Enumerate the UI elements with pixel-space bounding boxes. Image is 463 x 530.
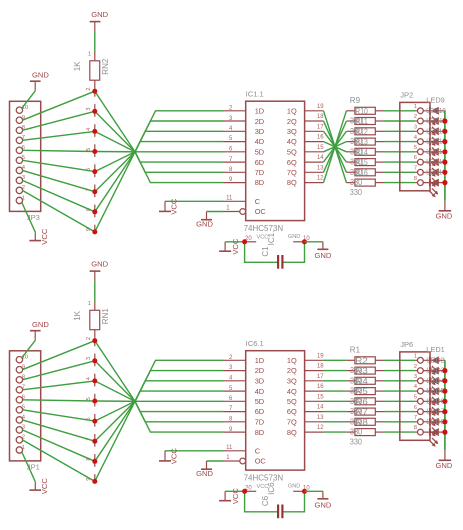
resistor array name R9 xyxy=(350,96,361,105)
svg-text:12: 12 xyxy=(317,425,324,431)
svg-text:13: 13 xyxy=(317,415,324,421)
LED LED4 xyxy=(423,387,445,406)
svg-text:IC1.1: IC1.1 xyxy=(246,90,264,99)
svg-text:LED1: LED1 xyxy=(426,345,445,354)
wire RN2 pin 4 to IC1 pin 7 (net crossover) xyxy=(95,131,224,162)
pin 4 of RN2 xyxy=(86,124,95,137)
ground GND (output enable) xyxy=(196,212,213,229)
label value 330 xyxy=(350,417,363,426)
svg-text:VCC: VCC xyxy=(257,484,269,490)
label name R3 xyxy=(355,367,368,376)
capacitor C6 xyxy=(245,491,305,518)
LED LED8 xyxy=(423,428,445,447)
svg-text:6D: 6D xyxy=(255,158,264,167)
pin 4 of RN1 xyxy=(86,374,95,387)
svg-text:LED9: LED9 xyxy=(426,96,445,105)
svg-text:2: 2 xyxy=(414,114,417,120)
label name LED16 xyxy=(426,167,446,176)
label name LED3 xyxy=(426,366,445,375)
resistor R15 330 xyxy=(346,169,383,176)
wire LED cathode bus to GND xyxy=(444,360,446,450)
pin 8 of RN2 xyxy=(86,205,95,218)
svg-text:VCC: VCC xyxy=(40,228,49,245)
pin 7 of RN1 xyxy=(86,434,95,447)
label name LED1 xyxy=(426,345,445,354)
svg-text:330: 330 xyxy=(350,366,363,375)
power pin 20 VCC of IC1 xyxy=(245,234,269,241)
label name R13 xyxy=(355,138,368,147)
svg-text:5: 5 xyxy=(86,397,92,400)
label value 330 xyxy=(350,428,363,437)
junction node RN2 pin 2 xyxy=(92,89,97,94)
wire JP3 pin 10 to GND xyxy=(22,91,36,109)
supply VCC (latch enable) xyxy=(159,448,179,465)
LED LED9 xyxy=(423,107,445,126)
resistor R16 330 xyxy=(346,179,383,186)
wire IC1 pin 15 to resistor R12 (crossover) xyxy=(324,142,347,152)
svg-text:4Q: 4Q xyxy=(287,137,297,146)
wire RN2 pin 7 to IC1 pin 4 (net crossover) xyxy=(95,131,224,191)
wire RN2 pin 3 to IC1 pin 8 (net crossover) xyxy=(95,111,224,172)
svg-text:1Q: 1Q xyxy=(287,107,297,116)
svg-text:IC1.: IC1. xyxy=(267,231,276,246)
svg-text:5: 5 xyxy=(414,395,417,401)
pin 19 (1Q) of IC6 xyxy=(305,353,325,360)
pin 8 (7D) of IC1 xyxy=(224,167,246,173)
wire resistor R7 to JP6 pin 7 xyxy=(384,421,416,423)
svg-text:1K: 1K xyxy=(73,61,82,71)
svg-text:19: 19 xyxy=(317,353,324,359)
junction LED bus row 7 xyxy=(442,419,447,424)
wire resistor R13 to JP2 pin 5 xyxy=(384,151,416,153)
LED LED10 xyxy=(423,117,445,136)
ground GND (top of JP1) xyxy=(30,320,49,341)
svg-text:3: 3 xyxy=(86,108,92,111)
svg-text:VCC: VCC xyxy=(231,238,240,255)
LED LED12 xyxy=(423,138,445,157)
pin 12 (8Q) of IC6 xyxy=(305,425,325,432)
svg-text:LED6: LED6 xyxy=(426,396,445,405)
pin 6 (5D) of IC6 xyxy=(224,396,246,402)
svg-text:VCC: VCC xyxy=(40,478,49,495)
label name R2 xyxy=(355,356,368,365)
svg-text:2: 2 xyxy=(86,337,92,340)
wire resistor R14 to JP2 pin 6 xyxy=(384,161,416,163)
wire pin 1 to GND xyxy=(207,460,224,462)
svg-text:7: 7 xyxy=(414,415,417,421)
svg-text:4: 4 xyxy=(414,384,417,390)
label value 330 xyxy=(350,178,363,187)
junction node RN1 pin 5 xyxy=(92,399,97,404)
LED LED14 xyxy=(423,158,445,177)
pin 11 (C) of IC6 xyxy=(224,445,246,451)
svg-text:2D: 2D xyxy=(255,366,264,375)
svg-text:GND: GND xyxy=(91,10,108,19)
label name R16 xyxy=(355,168,368,177)
pin 17 (3Q) of IC1 xyxy=(305,124,325,131)
svg-text:IC6.: IC6. xyxy=(267,480,276,495)
label value 330 (last) xyxy=(350,437,363,446)
label name LED13 xyxy=(426,137,446,146)
label name LED15 xyxy=(426,157,446,166)
svg-text:R10: R10 xyxy=(355,107,368,116)
resistor R12 330 xyxy=(346,138,383,145)
wire IC6 pin 13 to resistor R7 xyxy=(324,421,347,423)
svg-text:GND: GND xyxy=(32,320,49,329)
label name LED11 xyxy=(426,116,446,125)
svg-text:18: 18 xyxy=(317,114,324,120)
svg-text:1K: 1K xyxy=(73,310,82,320)
pin 5 of RN2 xyxy=(86,144,95,157)
svg-text:2: 2 xyxy=(86,87,92,90)
svg-text:16: 16 xyxy=(317,384,324,390)
svg-text:VCC: VCC xyxy=(170,198,179,215)
ground GND (top of JP3) xyxy=(30,70,49,91)
svg-text:14: 14 xyxy=(317,405,324,411)
wire resistor R6 to JP6 pin 6 xyxy=(384,411,416,413)
LED LED6 xyxy=(423,408,445,427)
svg-text:11: 11 xyxy=(226,445,233,451)
svg-text:8Q: 8Q xyxy=(287,428,297,437)
svg-text:3: 3 xyxy=(414,374,417,380)
resistor network RN2 value 1K xyxy=(73,51,110,91)
junction node VCC (pin 20) xyxy=(242,239,247,244)
LED LED15 xyxy=(423,168,445,187)
wire IC1 pin 12 to resistor R9 (crossover) xyxy=(324,111,347,183)
capacitor C1 xyxy=(245,242,305,269)
resistor R6 330 xyxy=(346,408,383,415)
junction node VCC (pin 20) xyxy=(242,489,247,494)
wire JP1 pin 8 to RN1 pin 3 xyxy=(22,361,94,380)
svg-text:LED10: LED10 xyxy=(426,106,446,115)
junction LED bus row 2 xyxy=(442,118,447,123)
pin 5 (4D) of IC1 xyxy=(224,136,246,142)
label value 330 (last) xyxy=(350,188,363,197)
wire RN2 pin 2 to IC1 pin 9 (net crossover) xyxy=(95,91,224,182)
junction LED bus row 2 xyxy=(442,368,447,373)
label name LED6 xyxy=(426,396,445,405)
junction node GND (pin 10) xyxy=(302,489,307,494)
pin 9 (8D) of IC1 xyxy=(224,177,246,183)
svg-text:12: 12 xyxy=(317,176,324,182)
svg-text:8: 8 xyxy=(414,176,417,182)
wire pin 11 to VCC xyxy=(165,200,224,202)
wire resistor R4 to JP6 pin 4 xyxy=(384,390,416,392)
wire IC6 pin 19 to resistor R1 xyxy=(324,359,347,361)
label value 330 xyxy=(350,376,363,385)
wire JP3 pin 1 to VCC xyxy=(22,202,36,232)
wire JP1 pin 5 to RN1 pin 6 xyxy=(22,410,94,421)
wire JP3 pin 2 to RN2 pin 9 xyxy=(22,190,94,232)
wire resistor R8 to JP6 pin 8 xyxy=(384,431,416,433)
svg-text:RN1: RN1 xyxy=(101,308,110,325)
svg-text:1: 1 xyxy=(88,51,91,57)
wire RN2 pin 9 to IC1 pin 2 (net crossover) xyxy=(95,111,224,232)
svg-text:2Q: 2Q xyxy=(287,366,297,375)
svg-text:1: 1 xyxy=(22,195,25,201)
svg-text:8D: 8D xyxy=(255,428,264,437)
wire JP3 pin 8 to RN2 pin 3 xyxy=(22,111,94,130)
power pin 10 GND of IC6 xyxy=(288,484,310,492)
junction LED bus row 5 xyxy=(442,149,447,154)
label name R4 xyxy=(355,377,368,386)
junction node RN1 pin 2 xyxy=(92,338,97,343)
ground GND (top of RN1) xyxy=(90,260,109,281)
svg-text:17: 17 xyxy=(317,124,324,130)
ground GND (output enable) xyxy=(196,461,213,478)
svg-text:4: 4 xyxy=(414,135,417,141)
svg-text:330: 330 xyxy=(350,417,363,426)
wire IC1 pin 17 to resistor R14 (crossover) xyxy=(324,131,347,162)
junction LED bus row 4 xyxy=(442,389,447,394)
label value 330 xyxy=(350,397,363,406)
label value 330 xyxy=(350,168,363,177)
svg-text:GND: GND xyxy=(288,484,300,490)
svg-text:1: 1 xyxy=(226,455,230,461)
svg-text:5Q: 5Q xyxy=(287,148,297,157)
svg-text:16: 16 xyxy=(317,135,324,141)
wire GND pin to ground xyxy=(305,241,323,243)
svg-text:C: C xyxy=(255,446,261,455)
wire IC6 pin 15 to resistor R5 xyxy=(324,400,347,402)
svg-text:74HC573N: 74HC573N xyxy=(244,224,284,233)
junction LED bus row 7 xyxy=(442,170,447,175)
svg-text:8: 8 xyxy=(414,425,417,431)
svg-text:7D: 7D xyxy=(255,418,264,427)
pin 6 (5D) of IC1 xyxy=(224,147,246,153)
label name LED4 xyxy=(426,376,445,385)
wire RN2 pin 8 to IC1 pin 3 (net crossover) xyxy=(95,121,224,212)
svg-text:3: 3 xyxy=(414,125,417,131)
pin 13 (7Q) of IC6 xyxy=(305,415,325,422)
LED LED16 xyxy=(423,179,445,198)
svg-text:GND: GND xyxy=(314,500,331,509)
resistor R4 330 xyxy=(346,388,383,395)
svg-text:VCC: VCC xyxy=(257,234,269,240)
resistor R3 330 xyxy=(346,377,383,384)
junction LED bus row 8 xyxy=(442,430,447,435)
svg-text:4Q: 4Q xyxy=(287,387,297,396)
supply VCC (IC power) xyxy=(219,488,240,505)
svg-text:LED8: LED8 xyxy=(426,417,445,426)
resistor R10 330 xyxy=(346,118,383,125)
svg-text:GND: GND xyxy=(314,251,331,260)
pin 7 (6D) of IC6 xyxy=(224,406,246,412)
pin 7 (6D) of IC1 xyxy=(224,157,246,163)
svg-text:OC: OC xyxy=(255,207,267,216)
svg-text:7Q: 7Q xyxy=(287,418,297,427)
pin 2 of RN2 xyxy=(86,87,95,96)
wire pin 1 to GND xyxy=(207,211,224,213)
svg-text:14: 14 xyxy=(317,155,324,161)
wire RN1 pin 2 to IC6 pin 9 (net crossover) xyxy=(95,341,224,432)
pin 14 (6Q) of IC1 xyxy=(305,155,325,162)
ground GND (top of RN2) xyxy=(90,10,109,31)
svg-text:LED7: LED7 xyxy=(426,407,445,416)
wire JP3 pin 4 to RN2 pin 7 xyxy=(22,170,94,191)
supply VCC (IC power) xyxy=(219,238,240,255)
pin 17 (3Q) of IC6 xyxy=(305,374,325,381)
wire resistor R2 to JP6 pin 2 xyxy=(384,370,416,372)
svg-text:1: 1 xyxy=(88,301,91,307)
svg-text:C: C xyxy=(255,197,261,206)
pin 1 (OC) of IC6, inverted xyxy=(224,455,246,464)
resistor R13 330 xyxy=(346,148,383,155)
svg-text:R1: R1 xyxy=(350,346,361,355)
junction node RN1 pin 3 xyxy=(92,358,97,363)
wire IC1 pin 13 to resistor R10 (crossover) xyxy=(324,121,347,172)
resistor network RN1 value 1K xyxy=(73,301,110,341)
label name R12 xyxy=(355,127,368,136)
wire JP3 pin 9 to RN2 pin 2 xyxy=(22,91,94,120)
svg-text:4D: 4D xyxy=(255,137,264,146)
pin 7 of RN2 xyxy=(86,185,95,198)
pin 12 (8Q) of IC1 xyxy=(305,176,325,183)
connector JP1 xyxy=(10,351,41,472)
junction node RN2 pin 7 xyxy=(92,189,97,194)
svg-text:3: 3 xyxy=(86,357,92,360)
svg-text:1: 1 xyxy=(226,205,230,211)
pin 4 (3D) of IC6 xyxy=(224,376,246,382)
wire resistor R11 to JP2 pin 3 xyxy=(384,130,416,132)
svg-text:330: 330 xyxy=(350,168,363,177)
wire resistor R1 to JP6 pin 1 xyxy=(384,359,416,361)
pin 9 of RN1 xyxy=(86,474,95,483)
svg-text:330: 330 xyxy=(350,137,363,146)
junction node GND (pin 10) xyxy=(302,239,307,244)
power pin 20 VCC of IC6 xyxy=(245,484,269,491)
svg-text:LED3: LED3 xyxy=(426,366,445,375)
junction LED bus row 8 xyxy=(442,180,447,185)
wire JP1 pin 1 to VCC xyxy=(22,452,36,482)
junction node RN2 pin 6 xyxy=(92,169,97,174)
label name R11 xyxy=(355,117,368,126)
LED LED11 xyxy=(423,127,445,146)
wire JP3 pin 6 to RN2 pin 5 xyxy=(22,150,94,151)
svg-text:JP6: JP6 xyxy=(400,340,413,349)
svg-text:6Q: 6Q xyxy=(287,407,297,416)
wire resistor R5 to JP6 pin 5 xyxy=(384,400,416,402)
pin 18 (2Q) of IC6 xyxy=(305,364,325,371)
LED LED7 xyxy=(423,418,445,437)
wire RN1 pin 5 to IC6 pin 6 (net crossover) xyxy=(95,400,224,402)
svg-text:R2: R2 xyxy=(355,356,368,365)
LED LED13 xyxy=(423,148,445,167)
pin 4 (3D) of IC1 xyxy=(224,126,246,132)
wire LED cathode bus to GND xyxy=(444,111,446,201)
resistor R2 330 xyxy=(346,367,383,374)
pin 2 (1D) of IC1 xyxy=(224,106,246,112)
pin 14 (6Q) of IC6 xyxy=(305,405,325,412)
junction LED bus row 5 xyxy=(442,399,447,404)
latch IC IC1.1 74HC573N xyxy=(244,90,305,246)
label name LED8 xyxy=(426,417,445,426)
ground GND (LED bus) xyxy=(435,201,452,221)
svg-text:5: 5 xyxy=(86,148,92,151)
connector JP3 xyxy=(10,101,41,222)
pin 9 (8D) of IC6 xyxy=(224,427,246,433)
pin 9 of RN2 xyxy=(86,225,95,234)
label name R5 xyxy=(355,387,368,396)
wire IC6 pin 14 to resistor R6 xyxy=(324,411,347,413)
pin 2 of RN1 xyxy=(86,337,95,346)
label value 330 xyxy=(350,407,363,416)
pin 3 of RN1 xyxy=(86,354,95,367)
junction LED bus row 3 xyxy=(442,129,447,134)
svg-text:GND: GND xyxy=(196,469,213,478)
label name LED12 xyxy=(426,126,446,135)
label name R10 xyxy=(355,107,368,116)
pin 2 (1D) of IC6 xyxy=(224,355,246,361)
label name R14 xyxy=(355,148,368,157)
svg-text:GND: GND xyxy=(91,260,108,269)
svg-text:17: 17 xyxy=(317,374,324,380)
junction LED bus row 6 xyxy=(442,160,447,165)
wire JP3 pin 5 to RN2 pin 6 xyxy=(22,160,94,171)
label name R8 xyxy=(355,418,368,427)
pin 8 (7D) of IC6 xyxy=(224,417,246,423)
pin 5 of RN1 xyxy=(86,394,95,407)
svg-text:8D: 8D xyxy=(255,178,264,187)
connector JP6 xyxy=(400,340,430,440)
wire JP1 pin 10 to GND xyxy=(22,340,36,358)
label name LED7 xyxy=(426,407,445,416)
svg-text:330: 330 xyxy=(350,147,363,156)
pin 15 (5Q) of IC6 xyxy=(305,394,325,401)
wire GND to RN1 pin 1 xyxy=(94,281,96,301)
svg-text:11: 11 xyxy=(226,196,233,202)
wire JP1 pin 4 to RN1 pin 7 xyxy=(22,420,94,441)
wire JP1 pin 6 to RN1 pin 5 xyxy=(22,400,94,401)
svg-text:3Q: 3Q xyxy=(287,377,297,386)
wire RN1 pin 3 to IC6 pin 8 (net crossover) xyxy=(95,361,224,422)
svg-text:2: 2 xyxy=(414,364,417,370)
wire resistor R15 to JP2 pin 7 xyxy=(384,171,416,173)
svg-text:IC6.1: IC6.1 xyxy=(246,339,264,348)
junction node RN1 pin 4 xyxy=(92,378,97,383)
svg-text:18: 18 xyxy=(317,364,324,370)
wire RN2 pin 6 to IC1 pin 5 (net crossover) xyxy=(95,142,224,172)
resistor R8 330 xyxy=(346,429,383,436)
pin 13 (7Q) of IC1 xyxy=(305,165,325,172)
svg-text:15: 15 xyxy=(317,145,324,151)
svg-text:330: 330 xyxy=(350,437,363,446)
LED LED1 xyxy=(423,356,445,375)
svg-text:1: 1 xyxy=(22,445,25,451)
svg-text:R9: R9 xyxy=(350,96,361,105)
svg-text:6: 6 xyxy=(414,405,417,411)
svg-text:VCC: VCC xyxy=(170,448,179,465)
svg-text:19: 19 xyxy=(317,104,324,110)
svg-text:LED4: LED4 xyxy=(426,376,445,385)
wire JP1 pin 3 to RN1 pin 8 xyxy=(22,430,94,461)
svg-text:330: 330 xyxy=(350,188,363,197)
junction node RN2 pin 9 xyxy=(92,229,97,234)
svg-text:1Q: 1Q xyxy=(287,356,297,365)
wire IC6 pin 12 to resistor R8 xyxy=(324,431,347,433)
svg-text:C1: C1 xyxy=(261,246,270,257)
LED LED5 xyxy=(423,397,445,416)
wire resistor R10 to JP2 pin 2 xyxy=(384,120,416,122)
svg-text:2Q: 2Q xyxy=(287,117,297,126)
svg-text:3D: 3D xyxy=(255,377,264,386)
pin 3 (2D) of IC1 xyxy=(224,116,246,122)
svg-text:1D: 1D xyxy=(255,356,264,365)
wire resistor R9 to JP2 pin 1 xyxy=(384,110,416,112)
svg-text:LED2: LED2 xyxy=(426,355,445,364)
svg-text:7: 7 xyxy=(414,166,417,172)
svg-text:OC: OC xyxy=(255,457,267,466)
